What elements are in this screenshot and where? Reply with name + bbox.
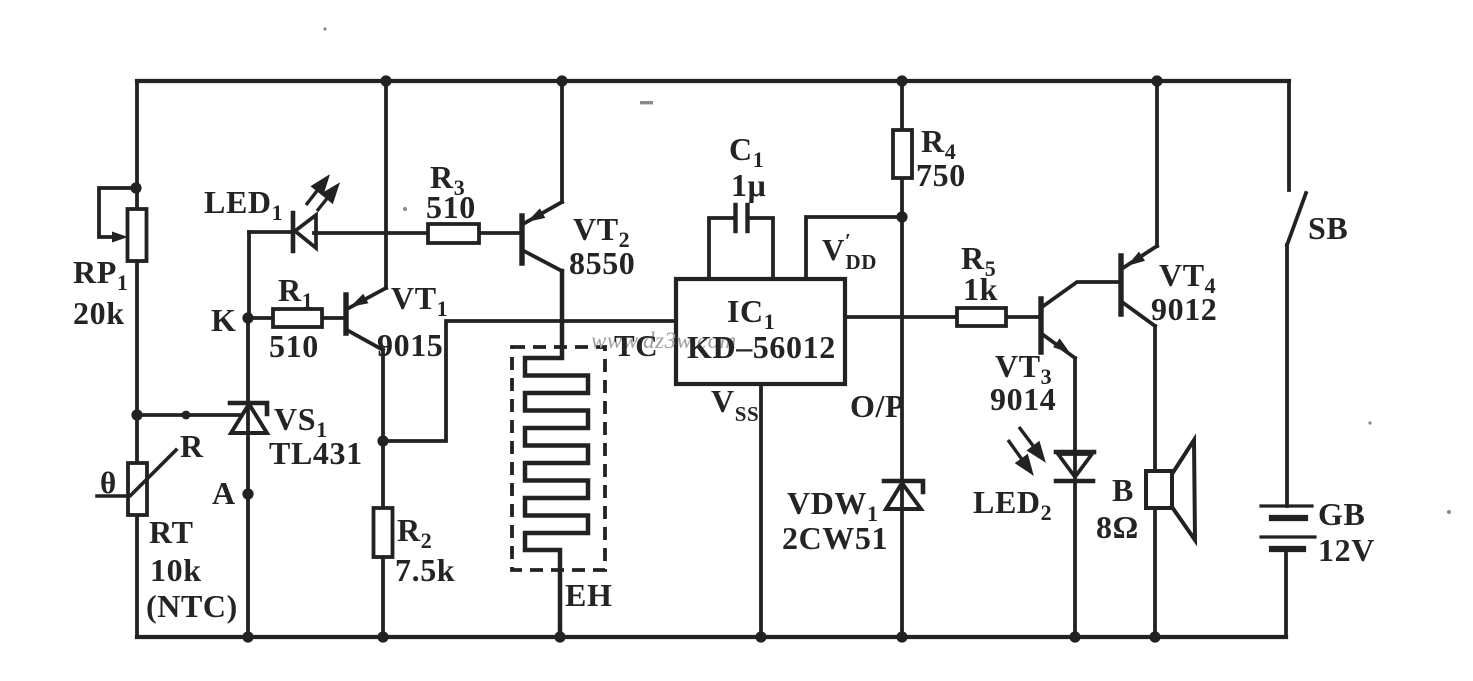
svg-text:9015: 9015	[377, 327, 443, 363]
svg-text:20k: 20k	[73, 295, 125, 331]
svg-text:RT: RT	[149, 514, 194, 550]
svg-text:LED1: LED1	[204, 184, 283, 225]
svg-text:1μ: 1μ	[731, 167, 766, 203]
svg-text:2CW51: 2CW51	[782, 520, 888, 556]
svg-text:TL431: TL431	[269, 435, 363, 471]
svg-text:(NTC): (NTC)	[146, 588, 238, 624]
svg-text:1k: 1k	[963, 271, 998, 307]
svg-text:R: R	[180, 428, 204, 464]
svg-text:TC: TC	[614, 328, 658, 363]
svg-text:7.5k: 7.5k	[395, 552, 455, 588]
svg-text:12V: 12V	[1318, 532, 1375, 568]
svg-text:8550: 8550	[569, 245, 635, 281]
svg-text:KD–56012: KD–56012	[687, 329, 836, 365]
svg-text:A: A	[212, 475, 236, 511]
svg-text:9014: 9014	[990, 381, 1056, 417]
svg-text:θ: θ	[100, 465, 117, 500]
svg-text:LED2: LED2	[973, 484, 1052, 525]
svg-text:750: 750	[916, 157, 966, 193]
svg-text:GB: GB	[1318, 496, 1365, 532]
svg-text:10k: 10k	[150, 552, 202, 588]
svg-text:9012: 9012	[1151, 291, 1217, 327]
svg-text:8Ω: 8Ω	[1096, 509, 1139, 545]
svg-text:SB: SB	[1308, 210, 1348, 246]
svg-text:510: 510	[269, 328, 319, 364]
svg-text:B: B	[1112, 472, 1134, 508]
svg-text:K: K	[211, 302, 237, 338]
svg-text:EH: EH	[565, 577, 612, 613]
svg-text:O/P: O/P	[850, 388, 905, 424]
svg-text:510: 510	[426, 189, 476, 225]
